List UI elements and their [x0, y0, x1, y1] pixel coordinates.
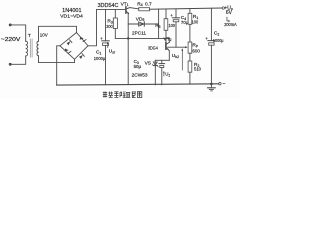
wire node line R3 to VT2	[115, 37, 169, 39]
diode VD1 bridge upper-left edge	[60, 33, 77, 46]
terminal AC input top	[9, 24, 11, 26]
caption 稳压电路原理图 (drawn glyph strokes)	[103, 92, 142, 98]
svg-text:3DD54C: 3DD54C	[98, 3, 119, 9]
capacitor C1	[100, 10, 109, 85]
terminal output minus	[219, 83, 221, 85]
resistor R3	[113, 10, 117, 39]
diode VD4 bridge lower-right edge	[75, 46, 89, 60]
svg-text:200mA: 200mA	[224, 22, 236, 27]
svg-text:50μ: 50μ	[134, 64, 142, 69]
resistor R1	[188, 9, 192, 42]
diode VD5 line	[128, 23, 158, 25]
svg-text:70μ: 70μ	[181, 20, 189, 25]
capacitor C4	[170, 9, 179, 47]
svg-text:VT2: VT2	[164, 36, 172, 42]
potentiometer RP	[188, 42, 192, 61]
wire VT1 collector line through R4 to output	[130, 8, 139, 9]
node junction dot emitter/node line	[127, 37, 129, 39]
wire secondary bottom to bridge AC2	[39, 56, 75, 63]
svg-text:100: 100	[192, 19, 199, 24]
svg-text:2CW53: 2CW53	[132, 72, 148, 77]
svg-text:R5: R5	[155, 23, 160, 29]
node Ub2 voltage arrow	[181, 48, 183, 70]
wire top rail raw DC	[97, 9, 126, 11]
ground symbol	[208, 84, 216, 91]
svg-text:6V: 6V	[226, 10, 233, 16]
svg-text:1000μ: 1000μ	[213, 38, 224, 43]
svg-text:VT1: VT1	[121, 1, 129, 7]
wire AC bottom to primary	[11, 56, 25, 64]
wire VT2 emitter drop	[168, 50, 170, 60]
transformer T secondary winding	[37, 41, 39, 56]
svg-text:C2: C2	[214, 31, 219, 37]
wire secondary top to bridge AC1	[39, 26, 77, 41]
wire VT2 base to RP wiper	[168, 46, 186, 48]
svg-text:510: 510	[194, 67, 201, 72]
zener diode VS	[153, 60, 159, 85]
svg-text:10V: 10V	[40, 32, 49, 38]
svg-text:300: 300	[106, 24, 113, 29]
wire AC top to primary	[11, 25, 25, 41]
svg-text:3DG4: 3DG4	[148, 46, 158, 51]
transistor VT2	[166, 38, 169, 50]
wire VD5 drop from output line	[158, 9, 160, 38]
wire zener link line	[155, 59, 169, 61]
svg-text:2PC11: 2PC11	[132, 30, 146, 35]
svg-text:T: T	[28, 33, 31, 39]
resistor R4	[139, 8, 150, 11]
svg-text:~220V: ~220V	[1, 37, 21, 43]
wire R4 to output terminal	[150, 8, 223, 9]
wire bridge plus riser to top rail	[88, 10, 97, 46]
svg-text:R4 0.7: R4 0.7	[137, 1, 152, 7]
wire bridge minus to ground rail	[57, 46, 60, 85]
terminal AC input bottom	[9, 63, 11, 65]
wire VT1 emitter down	[127, 14, 129, 85]
svg-text:C1: C1	[96, 50, 101, 56]
svg-text:−: −	[223, 81, 226, 87]
transformer T primary winding	[26, 41, 28, 56]
transformer core	[29, 39, 31, 57]
capacitor C3	[159, 60, 165, 85]
resistor R5	[164, 9, 168, 43]
node Uz voltage arrow	[163, 71, 165, 76]
svg-text:1000μ: 1000μ	[94, 56, 106, 61]
diode VD5	[139, 22, 145, 26]
svg-text:600: 600	[192, 48, 200, 53]
terminal output plus	[222, 7, 224, 9]
node junction dot C2 ground	[210, 83, 213, 86]
transistor VT1	[126, 7, 130, 14]
svg-text:VS: VS	[145, 60, 151, 66]
node Usr voltage arrow	[107, 42, 109, 48]
resistor R2	[188, 61, 192, 84]
wire ground rail	[57, 84, 219, 85]
capacitor C2	[205, 8, 215, 84]
diode VD2 bridge upper-right edge	[77, 33, 89, 46]
svg-text:VD1~VD4: VD1~VD4	[60, 14, 83, 20]
diode VD3 bridge lower-left edge	[60, 46, 75, 60]
svg-text:VD5: VD5	[136, 16, 145, 22]
svg-text:1N4001: 1N4001	[62, 8, 82, 14]
svg-text:100: 100	[168, 23, 175, 28]
